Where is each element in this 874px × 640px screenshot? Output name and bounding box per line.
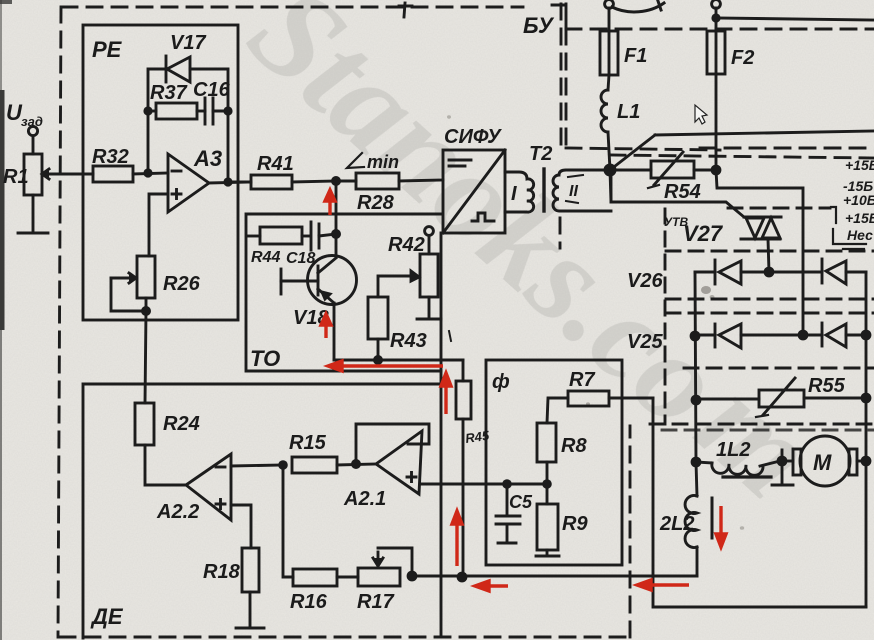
svg-text:I: I — [511, 183, 517, 205]
svg-text:R37: R37 — [150, 82, 188, 104]
wire T2 node diagonal riser — [610, 135, 655, 170]
label +15Б — [845, 157, 874, 173]
resistor R37 — [150, 82, 197, 119]
wire ТО bottom rail — [334, 359, 463, 362]
red arrows — [321, 190, 726, 591]
capacitor C5 — [496, 484, 533, 543]
wire bridge left vertical — [695, 272, 696, 463]
svg-text:F2: F2 — [731, 47, 754, 69]
capacitor C16 — [193, 79, 231, 124]
svg-text:А2.1: А2.1 — [343, 488, 386, 510]
transistor V18 — [281, 256, 357, 330]
label V26 — [627, 270, 663, 292]
svg-text:С16: С16 — [193, 79, 231, 101]
svg-text:С5: С5 — [509, 492, 533, 512]
transformer T2 core — [542, 169, 545, 211]
svg-text:РЕ: РЕ — [92, 37, 123, 62]
node R54/F2 junction — [711, 165, 722, 176]
wire R41 to node — [292, 181, 336, 182]
node V25 middle junction — [798, 330, 809, 341]
node R41/R28 junction — [331, 176, 341, 186]
node R8/R9 junction — [542, 479, 552, 489]
wire V26 row left — [695, 271, 715, 274]
inductor 2L2 — [659, 462, 712, 576]
resistor R44 — [248, 227, 302, 266]
svg-text:R16: R16 — [290, 591, 328, 613]
svg-text:R18: R18 — [203, 561, 241, 583]
node V25 row left junction — [690, 331, 701, 342]
svg-text:М: М — [813, 450, 832, 475]
svg-text:R41: R41 — [257, 153, 294, 175]
ground below R9 — [536, 550, 559, 556]
wire V17 to output riser — [190, 69, 228, 111]
tick mark on top dashed border — [399, 3, 412, 17]
svg-text:R15: R15 — [289, 432, 327, 454]
wire node to R41/R28 node — [335, 181, 338, 234]
svg-text:V26: V26 — [627, 270, 663, 292]
label alpha-min — [347, 152, 399, 172]
resistor R9 — [537, 504, 588, 550]
block РЕ boundary — [83, 25, 238, 320]
svg-text:ТО: ТО — [250, 346, 280, 371]
node R15 left junction — [278, 460, 288, 470]
block БУ label — [523, 13, 555, 38]
wire R24 to A2.2 output — [145, 445, 186, 485]
block СИФУ — [443, 126, 505, 233]
ground below R18 — [236, 592, 264, 628]
wire node to V27 gate rail — [610, 170, 744, 217]
wire R8 to R9 — [546, 462, 549, 504]
resistor R41 — [228, 153, 294, 189]
wire R28 to СИФУ — [399, 180, 443, 181]
node A3 output — [223, 177, 232, 186]
svg-text:Т2: Т2 — [529, 143, 552, 165]
node R26 bottom junction — [141, 306, 151, 316]
svg-text:V17: V17 — [170, 32, 206, 54]
node F2 top junction — [711, 13, 720, 22]
wire armature bottom bus — [412, 575, 697, 578]
resistor R15 — [289, 432, 337, 473]
wire V27 to V26 row — [768, 239, 769, 272]
handwritten mark 2 — [612, 1, 664, 12]
block ДЕ boundary — [83, 384, 441, 638]
mouse cursor — [695, 105, 707, 124]
wire R32 to A3 inverting input — [133, 173, 168, 174]
wire Uзад to R1 — [32, 136, 35, 154]
wire R26 to R24 — [145, 298, 146, 403]
resistor R7 — [568, 369, 609, 406]
capacitor C18 — [286, 222, 336, 267]
watermark & paper artifacts (decorative) — [223, 0, 843, 525]
wire A3 output — [209, 111, 251, 183]
svg-text:R26: R26 — [163, 273, 201, 295]
svg-text:R7: R7 — [569, 369, 595, 391]
node mains terminal 1 — [605, 0, 614, 8]
svg-text:R44: R44 — [251, 249, 280, 266]
svg-text:2L2: 2L2 — [659, 513, 694, 535]
potentiometer R17 — [357, 548, 412, 613]
potentiometer R26 — [111, 256, 201, 311]
svg-text:R43: R43 — [390, 330, 427, 352]
label -15Б — [843, 178, 873, 194]
svg-text:R9: R9 — [562, 513, 588, 535]
wire СИФУ down bus — [440, 233, 443, 636]
node R55 left junction — [691, 395, 702, 406]
svg-text:min: min — [367, 152, 399, 172]
node V25 right junction — [861, 330, 872, 341]
wire R37 to C16 — [197, 110, 205, 113]
svg-text:R8: R8 — [561, 435, 587, 457]
diode V26b — [822, 259, 866, 284]
svg-text:+15Б: +15Б — [845, 210, 874, 226]
wire bridge right vertical — [865, 272, 868, 607]
diode V17 — [166, 32, 206, 82]
wire A2.2 inverting input — [231, 465, 283, 466]
node A3 input junction — [143, 168, 152, 177]
svg-text:R28: R28 — [357, 192, 395, 214]
resistor R28 — [336, 173, 399, 214]
block БУ dashed boundary — [58, 4, 630, 637]
wire A2.2 noninverting input to R18 — [231, 505, 251, 548]
resistor R8 — [537, 423, 587, 462]
node motor right junction — [861, 456, 872, 467]
dashed boundary V26 row — [665, 209, 874, 424]
node 1L2 left junction — [691, 457, 702, 468]
diode V26a — [715, 260, 769, 284]
mark — [449, 331, 451, 341]
node Uзад terminal — [6, 100, 43, 136]
svg-text:V27: V27 — [683, 221, 724, 246]
wire C16 to node — [213, 110, 228, 113]
wire V18 emitter to bottom rail — [333, 303, 336, 360]
resistor R16 — [290, 569, 337, 613]
svg-text:L1: L1 — [617, 101, 640, 123]
svg-text:С18: С18 — [286, 250, 315, 267]
potentiometer R42 — [388, 227, 438, 297]
node R37/C16 left junction — [143, 106, 156, 115]
resistor R43 — [368, 297, 427, 360]
wire R43 wiper to R42 — [378, 271, 419, 297]
inductor 1L2 — [696, 439, 780, 477]
bracket marks — [831, 207, 866, 249]
rheostat R55 — [696, 375, 866, 417]
svg-text:Нес: Нес — [847, 227, 873, 243]
fuse box dashed boundary — [566, 29, 874, 158]
block Ф label — [492, 371, 510, 393]
svg-text:R32: R32 — [92, 146, 129, 168]
wire field supply rail — [655, 131, 874, 135]
wire node to R16 — [283, 465, 293, 577]
wire R45 to bottom bus — [462, 419, 465, 577]
block ТО label — [250, 346, 280, 371]
svg-text:А3: А3 — [193, 146, 222, 171]
svg-text:А2.2: А2.2 — [156, 501, 199, 523]
diode V25b — [822, 323, 866, 347]
wire V25 row left — [695, 334, 715, 337]
node R43 bottom junction — [373, 355, 383, 365]
block ТО boundary — [246, 214, 441, 371]
svg-text:R24: R24 — [163, 413, 200, 435]
node motor left junction — [777, 456, 788, 467]
fuse F1 — [600, 8, 647, 75]
wire F2 to R54 node — [715, 74, 718, 170]
label +15Б2 — [845, 210, 874, 226]
transformer T2 primary winding I — [505, 143, 552, 212]
op-amp A2.2 — [156, 454, 231, 523]
svg-text:R1: R1 — [3, 166, 29, 188]
node A3 output feedback junction — [223, 106, 232, 115]
wire F2 node to bridge right branch — [716, 170, 803, 335]
label V25 — [627, 331, 663, 353]
diode V25a — [715, 324, 822, 348]
op-amp A2.1 — [343, 431, 422, 510]
svg-text:+10Б: +10Б — [843, 192, 874, 208]
dashed boundary R55 row — [650, 424, 874, 430]
node R55 right junction — [861, 393, 872, 404]
label +10Б — [843, 192, 874, 208]
resistor R32 — [92, 146, 133, 182]
wire V18 collector — [335, 234, 338, 256]
svg-text:1L2: 1L2 — [716, 439, 750, 461]
svg-text:ДЕ: ДЕ — [90, 604, 124, 629]
node R45 bottom junction — [457, 572, 468, 583]
svg-text:БУ: БУ — [523, 13, 555, 38]
node A2.1 output junction — [351, 459, 361, 469]
rheostat R54 — [611, 152, 716, 203]
block ДЕ label — [90, 604, 124, 629]
ground below R1 — [18, 195, 48, 233]
wire R7 to R8 — [547, 398, 568, 423]
wire R16 to R17 — [337, 576, 358, 579]
potentiometer R1 — [3, 154, 56, 195]
wire to right edge top — [716, 18, 874, 20]
node C5 junction — [502, 479, 512, 489]
wire R7 to motor loop — [609, 397, 653, 400]
svg-text:R42: R42 — [388, 234, 425, 256]
label УТВ — [664, 215, 688, 229]
svg-text:ф: ф — [492, 371, 510, 393]
block РЕ label — [92, 37, 123, 62]
label нес — [847, 227, 873, 243]
block БУ corner tick — [552, 4, 566, 26]
svg-text:СИФУ: СИФУ — [444, 126, 502, 148]
svg-text:R55: R55 — [808, 375, 846, 397]
node C18/V18 collector junction — [331, 229, 341, 239]
dashed boundary V27 row — [728, 207, 830, 210]
node T2/L1 junction — [604, 164, 617, 177]
motor M — [782, 436, 866, 486]
op-amp A3 — [168, 146, 222, 212]
resistor R24 — [135, 403, 200, 445]
svg-text:R54: R54 — [664, 181, 701, 203]
dashed boundary V25 row — [666, 313, 874, 368]
wire A3 noninverting input to R26 — [149, 194, 168, 256]
wire V26 row middle — [769, 271, 822, 274]
brush bar — [772, 450, 793, 485]
motor loop box — [653, 398, 866, 607]
fuse F2 — [707, 31, 754, 74]
wire A2.1 noninverting input bus — [421, 483, 547, 486]
block Ф boundary — [486, 360, 622, 565]
resistor R45 — [456, 360, 491, 446]
triac V27 — [683, 217, 781, 246]
wire F2 top junction — [715, 8, 718, 31]
node V27/V26 junction — [764, 267, 775, 278]
inductor L1 — [601, 75, 640, 170]
node mains terminal 2 — [712, 0, 721, 8]
ground below R42 — [417, 297, 441, 319]
svg-text:II: II — [569, 183, 578, 200]
svg-text:F1: F1 — [624, 45, 647, 67]
svg-text:V25: V25 — [627, 331, 663, 353]
svg-text:R17: R17 — [357, 591, 395, 613]
wire A2.1 feedback — [356, 424, 429, 464]
transformer T2 secondary winding II — [553, 170, 611, 211]
wire R1 wiper to R32 — [48, 173, 93, 176]
wire R15 to A2.1 — [337, 464, 376, 465]
resistor R18 — [203, 548, 259, 592]
svg-text:+15Б: +15Б — [845, 157, 874, 173]
wire A3 feedback riser — [148, 69, 167, 173]
node R17 output junction — [407, 571, 418, 582]
